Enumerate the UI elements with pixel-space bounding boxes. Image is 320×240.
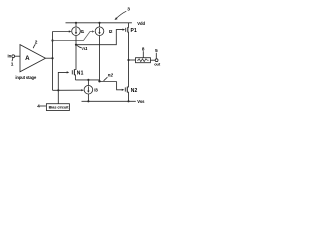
label 2	[33, 40, 38, 49]
svg-text:out: out	[154, 61, 161, 66]
svg-text:Vss: Vss	[137, 99, 145, 104]
node I1 rail dot	[75, 22, 77, 24]
op-amp U1 (input stage A)	[20, 45, 46, 72]
label n1	[77, 45, 88, 50]
node I3 bottom dot	[87, 100, 89, 102]
current source I1	[72, 23, 85, 36]
wire box to out	[150, 59, 155, 61]
svg-text:input stage: input stage	[15, 75, 37, 80]
wire n2 step to N2 gate	[117, 82, 125, 91]
svg-text:N1: N1	[77, 71, 84, 77]
svg-text:P1: P1	[131, 28, 138, 34]
Vss rail	[82, 100, 136, 102]
wire bias bottom to I3	[53, 89, 82, 91]
out terminal 5	[155, 59, 158, 62]
wire n1 to P1 gate riser	[76, 30, 123, 45]
wire I1 bottom to n1	[75, 36, 77, 45]
svg-text:1: 1	[11, 61, 14, 67]
svg-text:3: 3	[127, 7, 130, 13]
wire op-amp output	[46, 57, 53, 59]
resistor 8 box	[136, 58, 151, 63]
wire n2 horizontal	[75, 79, 99, 81]
node output junction dot	[127, 59, 129, 61]
node n1 dot	[75, 44, 77, 46]
node bias rail junction dot	[51, 57, 53, 59]
label 1	[11, 58, 14, 67]
node N2 source dot	[127, 100, 129, 102]
wire I1 control arrow	[53, 30, 72, 32]
bias circuit box 4	[46, 104, 69, 111]
svg-text:5: 5	[155, 48, 158, 53]
wire bias vertical	[52, 32, 54, 91]
node bias-I2 junction	[51, 39, 53, 41]
label 5	[155, 48, 158, 58]
wire I2 bottom to node n2	[99, 36, 101, 82]
transistor N1	[72, 69, 83, 80]
label 8	[142, 47, 145, 58]
svg-text:Bias circuit: Bias circuit	[49, 106, 70, 110]
node n2 dot	[98, 80, 100, 82]
input terminal in	[8, 53, 21, 58]
transistor N2	[125, 60, 137, 101]
label n2	[104, 72, 114, 80]
arrowhead P1 gate	[123, 29, 126, 31]
svg-text:N2: N2	[131, 88, 138, 94]
Vdd rail	[66, 22, 132, 24]
svg-text:Vdd: Vdd	[137, 21, 145, 26]
svg-text:in: in	[8, 53, 12, 58]
node I3 top dot	[87, 79, 89, 81]
label 3	[115, 7, 131, 21]
wire N1 drain from n1	[74, 45, 76, 70]
svg-text:n1: n1	[82, 46, 88, 51]
wire I2 control with diagonal	[53, 30, 95, 40]
node bias box tee dot	[57, 89, 59, 91]
svg-text:I2: I2	[109, 29, 113, 34]
wire I3 bottom	[87, 94, 89, 101]
svg-text:A: A	[25, 55, 30, 62]
svg-text:8: 8	[142, 47, 145, 52]
svg-text:I1: I1	[81, 29, 85, 34]
wire N1 gate from bias	[58, 71, 69, 103]
wire output to resistor box	[129, 59, 136, 61]
svg-text:I3: I3	[94, 88, 98, 93]
svg-text:n2: n2	[108, 72, 114, 77]
transistor P1	[126, 23, 137, 60]
current source I2	[95, 23, 113, 36]
current source I3	[84, 80, 98, 94]
label 4	[37, 103, 46, 108]
node I2 rail dot	[98, 22, 100, 24]
